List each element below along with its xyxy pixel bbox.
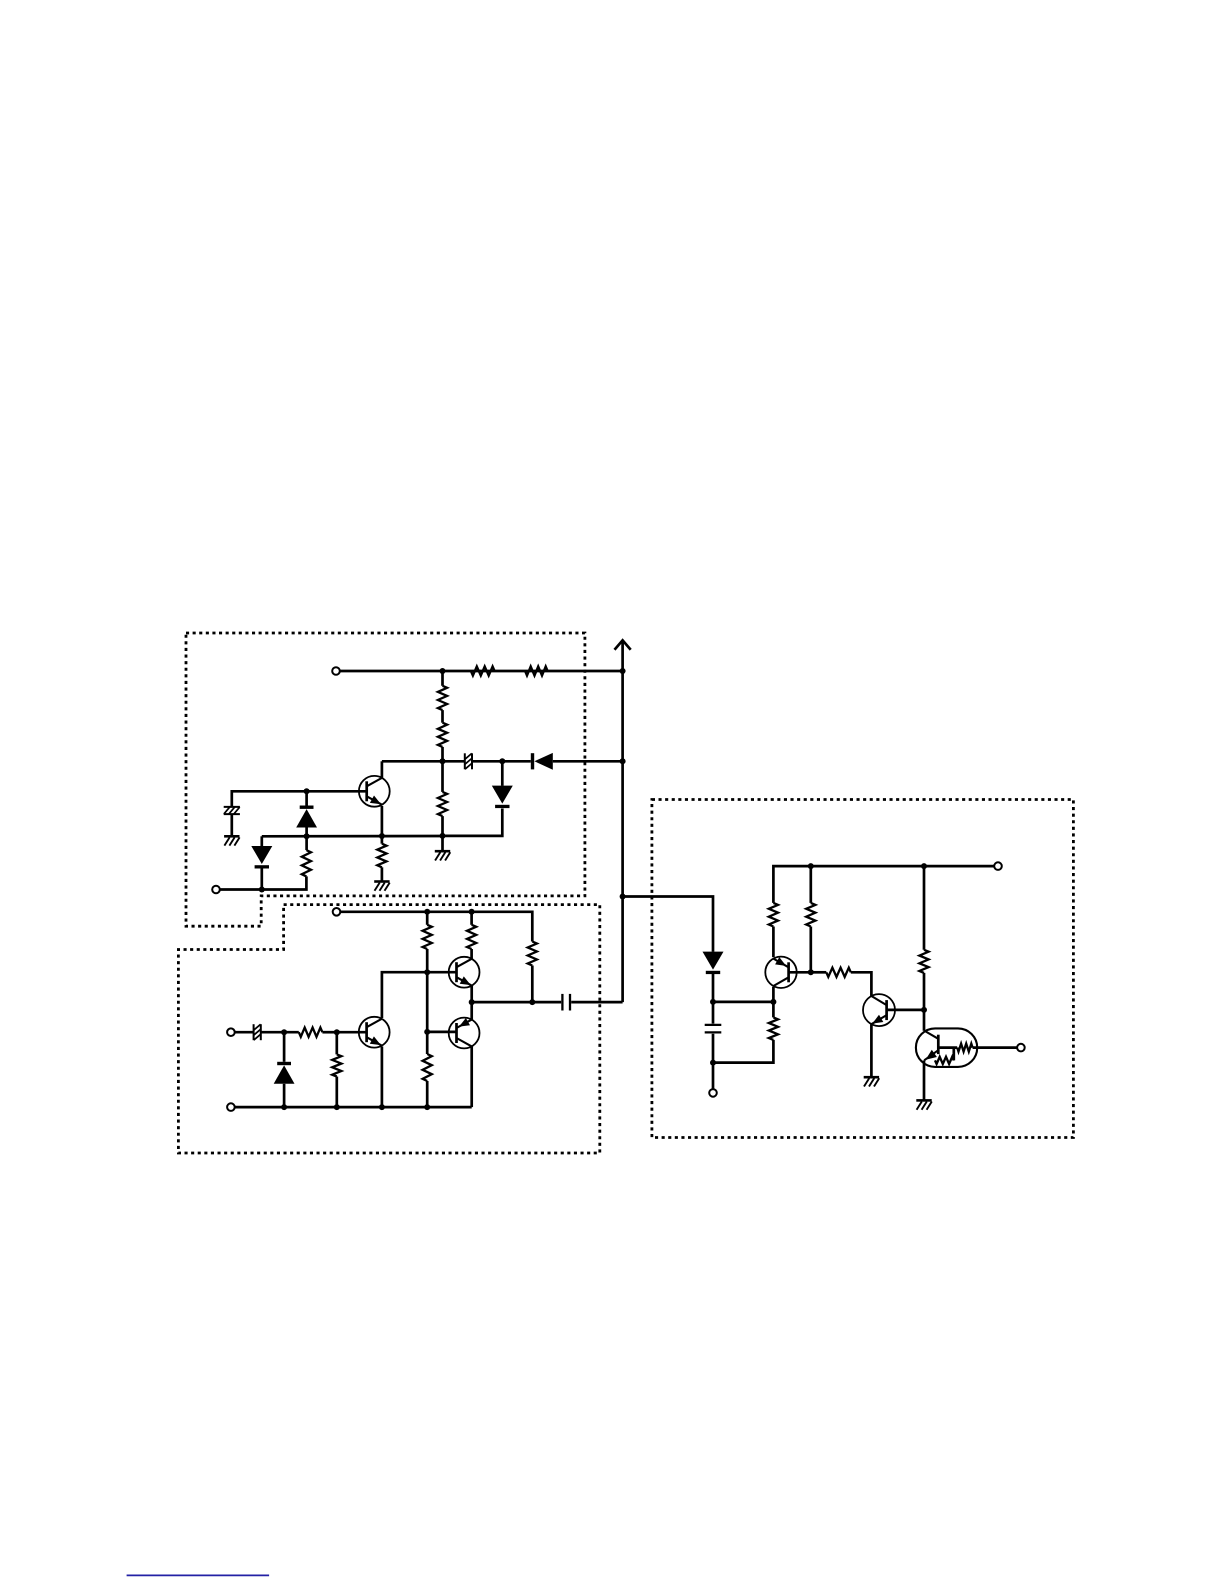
wire (R18 leads) bbox=[923, 866, 926, 1010]
dashed block outline (right circuit block) bbox=[652, 800, 1074, 1138]
node (Q5 collector junction) bbox=[770, 999, 776, 1005]
resistor R18 bbox=[919, 950, 928, 973]
wire (base node to R16) bbox=[811, 971, 827, 974]
node (bottom / D5) bbox=[281, 1104, 287, 1110]
node (Q1 base / D1 tap) bbox=[304, 788, 310, 794]
terminal T6 bbox=[994, 862, 1002, 870]
wire (collector node horizontal) bbox=[382, 760, 465, 763]
transistor Q7 internal symbol bbox=[924, 1031, 938, 1061]
wire (D6 to node) bbox=[712, 974, 715, 1002]
terminal T2 bbox=[212, 886, 220, 894]
wire (bottom rail of lower block) bbox=[235, 1106, 472, 1109]
ground (divider branch) bbox=[435, 851, 451, 860]
node (bottom / R13) bbox=[334, 1104, 340, 1110]
node (Q6 base / Q7 collector junction) bbox=[921, 1007, 927, 1013]
footer blue rule bbox=[127, 1574, 270, 1576]
capacitor C2 bbox=[705, 1025, 722, 1033]
digital transistor Q7 (outline) bbox=[916, 1028, 977, 1067]
wire (D3 to emitter wire) bbox=[443, 809, 503, 836]
terminal T4 bbox=[227, 1028, 235, 1036]
node (top rail / divider junction) bbox=[440, 668, 446, 674]
wire (break to R12) bbox=[261, 1031, 299, 1034]
wire (Q2 base) bbox=[337, 1031, 367, 1034]
ground (Q6 emitter) bbox=[864, 1077, 880, 1086]
resistor R5 bbox=[438, 792, 447, 816]
wire (Q2 emitter lead) bbox=[381, 1047, 384, 1108]
dashed block outline (upper-left circuit block) bbox=[186, 633, 585, 926]
wire (R8 node down to Q4 base node) bbox=[426, 972, 429, 1032]
wire (Q5 base) bbox=[788, 971, 811, 974]
node (R5 bottom junction) bbox=[440, 833, 446, 839]
node (R13 tap) bbox=[334, 1029, 340, 1035]
wire (cap to rail) bbox=[571, 1001, 622, 1004]
resistor R19 (Q7 base series) bbox=[957, 1044, 972, 1052]
node (Q1 emitter junction) bbox=[379, 833, 385, 839]
resistor R3 bbox=[438, 686, 447, 710]
wire (base node left) bbox=[232, 791, 307, 807]
wire (R8 leads) bbox=[426, 912, 429, 972]
resistor R9 bbox=[467, 925, 476, 949]
node (rail / R18) bbox=[921, 863, 927, 869]
diode D2 (pointing left) bbox=[531, 753, 553, 770]
wire (R6 top lead) bbox=[305, 836, 308, 850]
wire (D2 to rail) bbox=[553, 760, 623, 763]
wire (upper rail of right block) bbox=[773, 866, 994, 903]
resistor R11 bbox=[423, 1054, 432, 1081]
resistor R10 bbox=[528, 942, 537, 966]
resistor R1 bbox=[471, 666, 495, 675]
resistor R14 bbox=[769, 903, 778, 927]
wire (D4 branch down) bbox=[260, 836, 263, 846]
terminal T8 bbox=[1017, 1044, 1025, 1052]
node (push-pull output node) bbox=[469, 999, 475, 1005]
wire-break symbol S3 bbox=[254, 1024, 261, 1040]
ground (left branch) bbox=[224, 836, 240, 845]
wire (R19 to terminal) bbox=[973, 1046, 1018, 1049]
wire (output to cap) bbox=[472, 1001, 562, 1004]
resistor R4 bbox=[438, 723, 447, 747]
capacitor C1 bbox=[562, 994, 570, 1011]
wire (Q3 emitter lead) bbox=[470, 986, 473, 1003]
wire (Q7 collector lead) bbox=[923, 1010, 926, 1031]
wire (Q2 collector riser) bbox=[382, 972, 457, 1018]
terminal T7 bbox=[709, 1089, 717, 1097]
resistor R12 bbox=[299, 1028, 323, 1037]
wire (R12 to base) bbox=[322, 1031, 336, 1034]
wire (D5 branch) bbox=[283, 1032, 286, 1062]
diode D1 (pointing up) bbox=[296, 806, 317, 828]
node (rail / top wire junction) bbox=[620, 668, 626, 674]
wire (Q7 emitter lead) bbox=[923, 1060, 926, 1100]
node (divider / collector wire) bbox=[440, 758, 446, 764]
wire (R7 to ground) bbox=[381, 867, 384, 881]
resistor R2 bbox=[525, 666, 548, 675]
node (D5 tap) bbox=[281, 1029, 287, 1035]
wire (C2 top lead) bbox=[712, 1002, 715, 1024]
wire (Q5 collector lead) bbox=[772, 987, 775, 1002]
resistor R15 bbox=[806, 903, 815, 927]
wire (R5 leads) bbox=[441, 761, 444, 836]
wire (D5 to bottom) bbox=[283, 1084, 286, 1107]
wire (R17 leads) bbox=[713, 1002, 773, 1063]
node (rail / diode wire junction) bbox=[620, 758, 626, 764]
diode D3 (pointing down) bbox=[492, 786, 513, 809]
power rail arrow (up) bbox=[615, 640, 631, 649]
wire (base node to D1) bbox=[305, 791, 308, 806]
wire (R11 leads) bbox=[426, 1032, 429, 1107]
node (output / R10 junction) bbox=[529, 999, 535, 1005]
wire (rail to right block) bbox=[623, 897, 713, 952]
wire (emitter node horizontal) bbox=[262, 835, 443, 838]
node (bottom / R11) bbox=[424, 1104, 430, 1110]
wire (R4 to node) bbox=[441, 747, 444, 761]
wire (Q6 emitter lead) bbox=[870, 1024, 873, 1077]
wire (Q1 collector riser) bbox=[381, 761, 384, 777]
wire (between R3 and R4) bbox=[441, 710, 444, 723]
node (diode branch tap) bbox=[499, 758, 505, 764]
node (rail / right block feed junction) bbox=[620, 894, 626, 900]
wire (node to diode) bbox=[472, 760, 531, 763]
resistor R17 bbox=[769, 1017, 778, 1040]
node (D6 / C2 node) bbox=[710, 999, 716, 1005]
terminal T5 bbox=[227, 1103, 235, 1111]
wire (divider upper) bbox=[441, 671, 444, 686]
resistor R20 (Q7 base-emitter) bbox=[935, 1057, 954, 1064]
wire (D4 to bottom wire) bbox=[260, 869, 263, 890]
ground (Q1 emitter) bbox=[374, 882, 390, 891]
node (Q5 base / R15 junction) bbox=[808, 969, 814, 975]
ground (Q7 emitter) bbox=[916, 1100, 932, 1109]
wire-break symbol S2 (vertical) bbox=[224, 807, 240, 814]
node (rail / R15) bbox=[808, 863, 814, 869]
resistor R13 bbox=[332, 1054, 341, 1076]
terminal T3 bbox=[333, 908, 341, 916]
diode D6 (pointing down) bbox=[703, 952, 724, 975]
wire (input to break symbol) bbox=[235, 1031, 253, 1034]
terminal T1 bbox=[332, 667, 340, 675]
wire (upper rail of lower block) bbox=[340, 912, 532, 942]
diode D4 (pointing down) bbox=[251, 846, 272, 869]
transistor Q6 (NPN) bbox=[863, 994, 895, 1026]
wire (Q7 base to R19) bbox=[938, 1046, 957, 1049]
resistor R6 bbox=[302, 850, 311, 876]
wire (Q4 emitter lead) bbox=[470, 1002, 473, 1020]
node (C2 / R17 junction) bbox=[710, 1060, 716, 1066]
wire (Q1 base) bbox=[307, 790, 367, 793]
wire (main vertical rail) bbox=[621, 642, 624, 1003]
transistor Q2 (NPN) bbox=[359, 1017, 390, 1048]
wire (to terminal T7) bbox=[712, 1063, 715, 1090]
wire (R13 leads) bbox=[335, 1032, 338, 1107]
transistor Q4 (PNP) bbox=[449, 1018, 480, 1049]
wire (C2 bottom lead) bbox=[712, 1034, 715, 1063]
wire (D3 branch down) bbox=[501, 761, 504, 786]
node (R11 top / Q4 base junction) bbox=[424, 1029, 430, 1035]
wire (R15 leads) bbox=[809, 866, 812, 972]
wire (Q1 emitter to R7) bbox=[381, 806, 384, 844]
wire (R10 to output node) bbox=[531, 966, 534, 1003]
wire (D1 anode down) bbox=[305, 828, 308, 837]
node (rail / R9 junction) bbox=[469, 909, 475, 915]
wire (R16 to Q6 collector) bbox=[851, 972, 872, 996]
wire (S2 to ground) bbox=[230, 814, 233, 836]
wire (Q6 base) bbox=[886, 1009, 924, 1012]
dashed block outline (lower-left circuit block) bbox=[178, 905, 599, 1153]
node (rail / R8 junction) bbox=[424, 909, 430, 915]
wire (bottom input wire) bbox=[220, 876, 307, 889]
node (D1 / emitter wire) bbox=[304, 833, 310, 839]
wire (top rail of upper block) bbox=[340, 670, 623, 673]
wire (Q4 collector lead) bbox=[470, 1047, 473, 1108]
wire (node to Q5 collector) bbox=[713, 1001, 773, 1004]
wire (R9 leads) bbox=[470, 912, 473, 959]
resistor R8 bbox=[423, 925, 432, 949]
transistor Q5 (PNP) bbox=[765, 957, 796, 988]
wire (R14 to Q5 emitter) bbox=[772, 927, 775, 958]
transistor Q3 (NPN) bbox=[449, 957, 480, 988]
node (collector wire / R8 junction) bbox=[424, 969, 430, 975]
node (T2 wire / D4 junction) bbox=[259, 887, 265, 893]
wire (Q4 base) bbox=[427, 1031, 456, 1034]
wire (ground stub mid) bbox=[441, 836, 444, 851]
resistor R7 (Q1 emitter) bbox=[377, 844, 386, 868]
resistor R16 bbox=[826, 968, 851, 977]
transistor Q1 (NPN) bbox=[359, 776, 390, 807]
wire (Q7 internal stub) bbox=[952, 1048, 955, 1061]
node (bottom / Q2 emitter) bbox=[379, 1104, 385, 1110]
wire-break symbol S1 bbox=[465, 753, 472, 769]
diode D5 (pointing up) bbox=[274, 1062, 295, 1084]
